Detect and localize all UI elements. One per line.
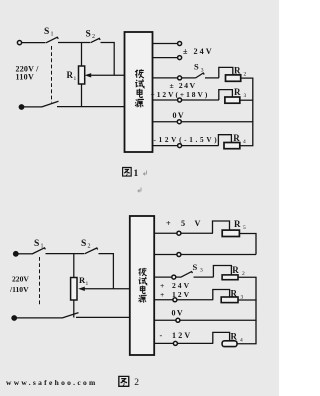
svg-text:± 24V: ± 24V xyxy=(183,47,214,56)
box text bei (被) xyxy=(135,69,144,78)
resistor R1 (fig1) xyxy=(79,66,85,84)
svg-text:R: R xyxy=(233,133,240,143)
resistor R3 (fig1) xyxy=(225,97,240,103)
terminal -12V (fig1) xyxy=(178,144,182,148)
label 220V/110V (fig2) xyxy=(9,275,29,294)
wire top input to S1 (fig2) xyxy=(18,253,32,255)
switch S1b blade (ganged lower pole) xyxy=(42,101,59,107)
svg-text:S: S xyxy=(81,239,86,249)
terminal S3 line xyxy=(178,76,182,80)
svg-text:R: R xyxy=(234,66,241,76)
terminal input bottom (fig2) xyxy=(12,316,16,320)
svg-text:S: S xyxy=(44,27,49,37)
svg-text:R: R xyxy=(67,70,74,80)
R2 hook wire xyxy=(219,67,233,78)
svg-text:1: 1 xyxy=(134,169,139,179)
resistor R2 (fig2) xyxy=(222,275,238,280)
wire terminal to R3 (fig2) xyxy=(177,299,213,301)
label R5 (fig2) xyxy=(234,219,246,231)
terminal +12V line xyxy=(178,98,182,102)
R1 vertical wire (fig2) xyxy=(73,254,75,318)
gang dashed link S1 xyxy=(51,46,53,103)
wire terminal to R3 xyxy=(182,99,219,101)
terminal +5V return xyxy=(177,253,181,257)
wire S3 to R2 xyxy=(205,77,219,79)
label R1 (fig2) xyxy=(79,275,89,287)
svg-text:24V: 24V xyxy=(172,281,191,290)
box text bei (fig2) xyxy=(138,268,146,276)
svg-text:4: 4 xyxy=(243,139,246,145)
box under-test power supply (fig1) xyxy=(125,32,153,152)
wire lower rail to box xyxy=(57,106,125,108)
wire R4 to bus (fig2) xyxy=(237,343,257,345)
svg-text:S: S xyxy=(194,62,199,72)
svg-text:0V: 0V xyxy=(172,309,185,318)
label R4 (fig1) xyxy=(233,133,246,145)
label S2 xyxy=(86,30,96,41)
svg-text:S: S xyxy=(193,262,198,272)
resistor R5 (fig2) xyxy=(222,230,239,236)
terminal input top (fig1) xyxy=(17,41,21,45)
switch S2 blade xyxy=(91,38,101,42)
resistor R4 (fig1) xyxy=(224,143,240,149)
switch S3 blade (fig2) xyxy=(181,272,193,278)
output stub +24V b (fig1) xyxy=(153,57,178,59)
switch S2 blade (fig2) xyxy=(85,248,98,254)
R3 hook wire (fig2) xyxy=(213,290,230,300)
svg-text:2: 2 xyxy=(134,378,139,388)
svg-text:+: + xyxy=(160,281,164,290)
svg-text:-12V(-1.5V): -12V(-1.5V) xyxy=(154,136,220,144)
output stub +24V a (fig1) xyxy=(153,43,178,45)
svg-text:± 24V: ± 24V xyxy=(170,81,197,90)
svg-text:+: + xyxy=(166,219,171,228)
resistor R2 (fig1) xyxy=(226,75,241,81)
svg-text:V: V xyxy=(195,219,201,228)
output stub -12V (fig2) xyxy=(154,342,173,344)
svg-text:www.safehoo.com: www.safehoo.com xyxy=(6,378,98,387)
svg-text:1: 1 xyxy=(41,244,44,250)
switch S1b blade (fig2) xyxy=(62,313,79,318)
svg-text:2: 2 xyxy=(92,34,95,40)
wire S3 to R2 (fig2) xyxy=(194,276,214,278)
svg-text:3: 3 xyxy=(244,93,247,99)
svg-text:S: S xyxy=(86,30,91,40)
svg-text:S: S xyxy=(34,239,39,249)
wiper arrowhead xyxy=(85,73,92,77)
R2 hook wire (fig2) xyxy=(213,266,231,278)
switch S3 blade (fig1) xyxy=(196,73,205,78)
bus vertical (fig2) xyxy=(255,277,257,344)
label R2 (fig2) xyxy=(232,265,245,277)
terminal +24V b xyxy=(178,56,182,60)
wire +5V to R5 xyxy=(181,232,213,234)
wire terminal to R4 xyxy=(182,145,219,147)
output stub +12V line (fig1) xyxy=(153,99,178,101)
svg-text:5: 5 xyxy=(243,225,246,231)
label S1 (fig2) xyxy=(34,239,44,250)
svg-text:1: 1 xyxy=(74,76,77,82)
wire bottom input to switch (fig2) xyxy=(17,317,63,319)
label S2 (fig2) xyxy=(81,239,91,250)
R4 hook wire xyxy=(218,135,231,146)
label R3 (fig2) xyxy=(231,289,244,301)
box text dian (电) xyxy=(137,89,142,98)
output stub 0V (fig1) xyxy=(153,121,178,123)
label +24V (fig2) xyxy=(160,281,191,290)
wiper arrowhead (fig2) xyxy=(78,287,85,291)
wire S1 to S2 (top rail) xyxy=(58,42,90,44)
caption tu (图) 2 xyxy=(119,376,129,386)
label S3 (fig1) xyxy=(194,62,204,74)
svg-text:4: 4 xyxy=(240,338,243,344)
resistor R3 (fig2) xyxy=(221,297,238,303)
wire 0V to bus (fig2) xyxy=(180,319,256,321)
svg-text:5: 5 xyxy=(181,219,185,228)
caption tu (图) 1 xyxy=(123,168,132,177)
svg-text:R: R xyxy=(231,289,238,299)
terminal 0V (fig1) xyxy=(177,120,181,124)
wiper wire to box (fig1) xyxy=(88,74,125,76)
wire S2 to corner (fig2) xyxy=(99,254,114,289)
svg-text:3: 3 xyxy=(201,67,204,73)
output stub +5V return (fig2) xyxy=(154,254,177,256)
box text yuan (fig2) xyxy=(139,295,147,302)
wire terminal to S3 (fig2) xyxy=(176,276,181,278)
wire R2 to bus xyxy=(241,77,254,79)
top rail S1 to S2 (fig2) xyxy=(46,253,85,255)
svg-text:0V: 0V xyxy=(173,111,186,120)
R4 hook wire (fig2) xyxy=(213,332,230,343)
wire terminal to R4 (fig2) xyxy=(178,342,214,344)
terminal +12V line (fig2) xyxy=(173,298,177,302)
label +12V (fig2) xyxy=(160,290,191,299)
box under-test power supply (fig2) xyxy=(130,216,154,355)
gang dashed link (fig2) xyxy=(39,257,41,306)
svg-text:220V: 220V xyxy=(12,275,29,284)
output stub +5V (fig2) xyxy=(154,232,177,234)
R5 hook wire xyxy=(213,221,230,233)
terminal 0V (fig2) xyxy=(176,318,180,322)
label R1 xyxy=(67,70,77,82)
return mark right of caption 1 xyxy=(143,171,146,176)
svg-text:R: R xyxy=(234,87,241,97)
svg-text:R: R xyxy=(231,332,238,342)
wire R3 to bus (fig2) xyxy=(238,299,257,301)
label S3 (fig2) xyxy=(193,262,204,274)
svg-text:3: 3 xyxy=(200,268,203,274)
terminal input top (fig2) xyxy=(14,252,18,256)
wire bottom input to switch xyxy=(24,106,42,108)
svg-text:2: 2 xyxy=(244,72,247,78)
wire top input to S1 xyxy=(22,42,46,44)
output stub -12V (fig1) xyxy=(153,145,178,147)
label R2 (fig1) xyxy=(234,66,247,78)
terminal S3 line (fig2) xyxy=(172,275,176,279)
wire R2 to bus (fig2) xyxy=(238,276,257,278)
svg-text:110V: 110V xyxy=(16,73,35,82)
return mark stray below caption xyxy=(138,188,141,193)
lower rail to box (fig2) xyxy=(76,316,130,318)
label +5V (fig2) xyxy=(166,219,201,228)
box text dian (fig2) xyxy=(140,286,145,294)
wire +5V return line xyxy=(181,254,256,256)
output stub S3 line (fig1) xyxy=(153,77,178,79)
terminal +5V xyxy=(177,231,181,235)
wire S2 to corner xyxy=(101,43,115,76)
label S1 xyxy=(44,27,54,38)
resistor R4 (fig2) xyxy=(222,341,237,347)
svg-text:2: 2 xyxy=(88,244,91,250)
label R3 (fig1) xyxy=(234,87,247,99)
box text shi (fig2) xyxy=(139,277,147,285)
svg-text:+: + xyxy=(160,290,164,299)
box text shi (试) xyxy=(135,79,144,87)
wire 0V to bus xyxy=(182,121,254,123)
svg-text:+12V(+18V): +12V(+18V) xyxy=(151,90,210,99)
svg-text:12V: 12V xyxy=(172,331,192,340)
wiper wire to box (fig2) xyxy=(82,288,130,290)
svg-text:1: 1 xyxy=(86,281,89,287)
switch S1 blade (fig2) xyxy=(32,248,45,254)
switch S1 blade xyxy=(46,37,58,43)
output stub 0V (fig2) xyxy=(154,319,176,321)
wire R4 to bus xyxy=(240,145,254,147)
svg-text:1: 1 xyxy=(51,32,54,38)
resistor R1 (fig2) xyxy=(71,278,77,301)
label 220V/110V (fig1) xyxy=(16,65,40,82)
svg-text:-: - xyxy=(160,331,163,340)
svg-text:R: R xyxy=(232,265,239,275)
terminal input bottom (fig1) xyxy=(19,105,23,109)
R1 vertical wire xyxy=(81,43,83,107)
label -12V (fig2) xyxy=(160,331,193,340)
wire R5 to corner down to return line xyxy=(239,234,256,255)
bus vertical (fig1) xyxy=(252,78,254,146)
wire R3 to bus xyxy=(240,99,254,101)
terminal +24V a xyxy=(178,42,182,46)
svg-text:R: R xyxy=(234,219,241,229)
wire terminal to S3 xyxy=(182,77,196,79)
box text yuan (源) xyxy=(135,99,144,107)
output stub S3 line (fig2) xyxy=(154,276,171,278)
terminal -12V (fig2) xyxy=(173,341,177,345)
label R4 (fig2) xyxy=(231,332,244,344)
output stub +12V line (fig2) xyxy=(154,299,173,301)
svg-text:/110V: /110V xyxy=(9,285,29,294)
svg-text:2: 2 xyxy=(242,271,245,277)
R3 hook wire xyxy=(219,90,233,100)
